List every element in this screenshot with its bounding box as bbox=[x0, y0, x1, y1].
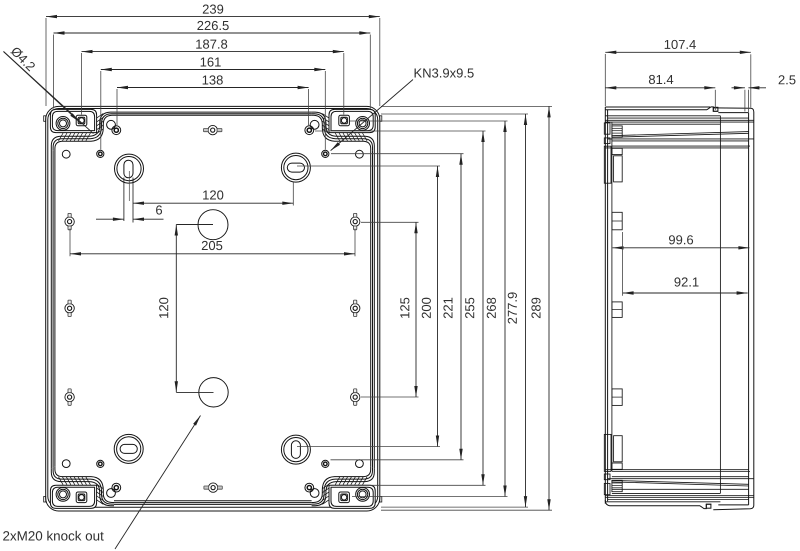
keyhole top center bbox=[208, 125, 217, 134]
mounting boss bottom-left bbox=[114, 434, 143, 463]
keyhole right row3 bbox=[351, 392, 360, 401]
dimension 268 bbox=[504, 121, 506, 497]
extension lines top dims bbox=[45, 18, 47, 106]
label 2xM20 knock out with leader bbox=[3, 531, 104, 541]
M20 knockout upper bbox=[198, 210, 228, 240]
dimension 277.9 bbox=[525, 114, 527, 507]
side view top collar lines bbox=[605, 115, 720, 117]
keyhole left row2 bbox=[65, 304, 74, 313]
keyhole right row2 bbox=[351, 304, 360, 313]
side view left tabs top bbox=[604, 123, 610, 134]
enclosure front view inner wall line 1 bbox=[114, 111, 312, 113]
side view top notch bbox=[707, 107, 718, 111]
corner module bottom-right bbox=[305, 460, 375, 509]
dimension 205 bbox=[69, 229, 71, 257]
dimension 120 horizontal bbox=[292, 182, 294, 206]
dimension 2.5 bbox=[732, 87, 745, 89]
dimension 187.8 bbox=[82, 51, 344, 53]
enclosure front view inner wall line 2 bbox=[114, 113, 312, 115]
side view lid inner line bbox=[748, 113, 750, 505]
mounting boss top-left bbox=[115, 154, 144, 183]
side view bottom collar lines bbox=[605, 501, 720, 503]
enclosure front view outer wall bbox=[46, 106, 380, 511]
boss slot extension lines bbox=[123, 178, 125, 222]
label KN3.9x9.5 with leader bbox=[415, 68, 474, 77]
keyhole bottom center bbox=[208, 483, 217, 492]
dimension 200 bbox=[437, 166, 439, 447]
side view bottom edge bbox=[605, 500, 700, 506]
dimension 239 bbox=[46, 16, 380, 18]
right edge tab bottom bbox=[380, 497, 382, 503]
dimension 6 bbox=[96, 218, 124, 220]
side view top edge bbox=[605, 106, 710, 108]
side view keyhole row tabs bbox=[612, 212, 622, 230]
extension lines side view dims bbox=[604, 54, 606, 106]
corner module bottom-left bbox=[50, 460, 120, 509]
dimension 138 bbox=[117, 87, 309, 89]
dimension 289 bbox=[548, 106, 550, 510]
label diameter 4.2 with leader bbox=[10, 46, 36, 72]
right edge tab top bbox=[380, 116, 382, 122]
keyhole left row1 bbox=[65, 217, 74, 226]
extension lines right dims bbox=[381, 105, 552, 107]
side view bottom notch bbox=[700, 504, 711, 508]
keyhole left row3 bbox=[65, 392, 74, 401]
dimension 99.6 bbox=[613, 247, 750, 249]
keyhole right row1 bbox=[351, 217, 360, 226]
left edge tab top bbox=[44, 116, 46, 122]
side view base rim line bbox=[719, 116, 721, 494]
M20 knockout lower bbox=[199, 378, 228, 407]
mounting boss top-right bbox=[281, 153, 310, 182]
side view left wall bbox=[604, 107, 606, 504]
dimension 81.4 bbox=[605, 87, 715, 89]
mounting boss bottom-right bbox=[281, 435, 310, 464]
enclosure front view outer wall inner line bbox=[48, 109, 378, 508]
dimension 107.4 bbox=[605, 51, 751, 53]
side view left tabs bottom bbox=[604, 483, 610, 494]
left edge tab bottom bbox=[44, 497, 46, 503]
dimension 125 bbox=[415, 222, 417, 397]
dimension 120 vertical bbox=[176, 224, 213, 226]
dimension 221 bbox=[460, 154, 462, 460]
corner module top-right bbox=[305, 109, 375, 158]
side view lid top and right edge bbox=[713, 108, 754, 510]
dimension 255 bbox=[482, 131, 484, 485]
dimension 161 bbox=[101, 69, 325, 71]
enclosure front view inner wall line 3 bbox=[114, 114, 312, 116]
dimension 92.1 bbox=[622, 232, 624, 296]
dimension 226.5 bbox=[54, 32, 371, 34]
corner module definition (top-left) bbox=[50, 109, 120, 158]
